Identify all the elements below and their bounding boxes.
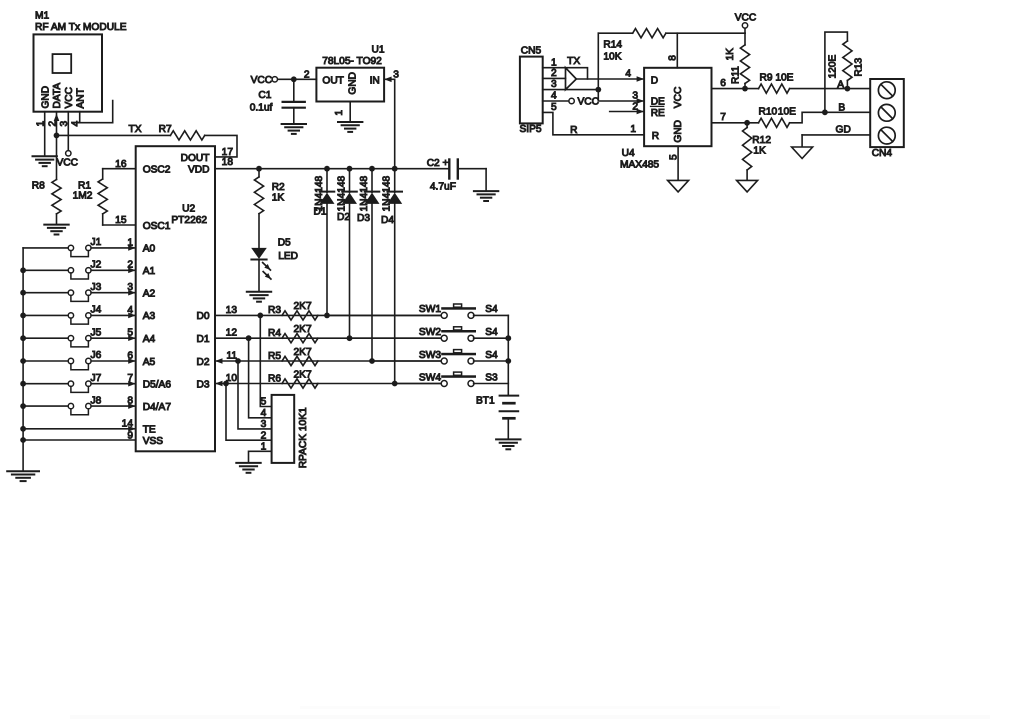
svg-text:VCC: VCC — [735, 13, 757, 24]
svg-text:78L05- TO92: 78L05- TO92 — [322, 56, 382, 67]
svg-text:R: R — [652, 131, 659, 142]
svg-text:J7: J7 — [91, 373, 102, 384]
svg-text:J3: J3 — [91, 282, 102, 293]
svg-text:S4: S4 — [485, 327, 498, 338]
svg-text:OUT: OUT — [322, 75, 344, 86]
svg-text:IN: IN — [370, 75, 380, 86]
svg-text:J1: J1 — [91, 237, 102, 248]
svg-text:S4: S4 — [485, 350, 498, 361]
svg-text:2K7: 2K7 — [294, 301, 312, 312]
svg-text:S4: S4 — [485, 304, 498, 315]
svg-text:SW1: SW1 — [419, 304, 441, 315]
svg-text:R14: R14 — [603, 40, 622, 51]
svg-text:GND: GND — [347, 72, 358, 95]
svg-text:J5: J5 — [91, 327, 102, 338]
svg-text:18: 18 — [222, 157, 234, 168]
svg-text:TX: TX — [567, 56, 580, 67]
svg-text:RPACK 10K1: RPACK 10K1 — [298, 407, 309, 468]
svg-text:10K: 10K — [603, 51, 621, 62]
svg-text:1N4148: 1N4148 — [382, 175, 393, 211]
svg-text:S3: S3 — [485, 372, 498, 383]
svg-text:10E: 10E — [778, 107, 796, 118]
svg-text:4.7uF: 4.7uF — [430, 181, 456, 192]
svg-text:1M2: 1M2 — [73, 190, 93, 201]
svg-text:B: B — [838, 102, 845, 113]
svg-text:0.1uf: 0.1uf — [250, 102, 273, 113]
svg-text:4: 4 — [625, 69, 631, 80]
svg-text:M1: M1 — [35, 11, 49, 22]
svg-text:SW2: SW2 — [419, 327, 441, 338]
svg-text:5: 5 — [668, 154, 679, 160]
svg-text:R5: R5 — [268, 351, 281, 362]
svg-text:A1: A1 — [143, 266, 156, 277]
svg-text:CN5: CN5 — [521, 45, 542, 56]
svg-text:1: 1 — [630, 124, 636, 135]
svg-text:VCC: VCC — [64, 87, 75, 109]
svg-text:J6: J6 — [91, 350, 102, 361]
svg-text:A0: A0 — [143, 244, 156, 255]
svg-text:7: 7 — [720, 112, 726, 123]
svg-text:1N4148: 1N4148 — [336, 175, 347, 211]
svg-text:TE: TE — [143, 425, 156, 436]
svg-text:A2: A2 — [143, 289, 156, 300]
svg-text:C2 +: C2 + — [427, 158, 449, 169]
svg-text:A3: A3 — [143, 311, 156, 322]
svg-text:DATA: DATA — [52, 83, 63, 109]
svg-text:OSC2: OSC2 — [143, 165, 171, 176]
svg-text:D2: D2 — [196, 357, 209, 368]
svg-text:CN4: CN4 — [872, 148, 893, 159]
svg-text:12: 12 — [226, 328, 238, 339]
svg-text:U4: U4 — [622, 148, 635, 159]
svg-text:VSS: VSS — [143, 436, 164, 447]
svg-text:8: 8 — [668, 55, 679, 61]
svg-text:J2: J2 — [91, 260, 102, 271]
svg-text:GD: GD — [836, 125, 851, 136]
svg-text:ANT: ANT — [75, 88, 86, 108]
svg-text:2: 2 — [632, 101, 638, 112]
svg-text:1K: 1K — [753, 145, 766, 156]
svg-text:D5/A6: D5/A6 — [143, 380, 172, 391]
svg-text:R11: R11 — [730, 66, 741, 84]
svg-text:GND: GND — [40, 86, 51, 109]
svg-text:D3: D3 — [357, 213, 370, 224]
svg-text:3: 3 — [551, 79, 557, 90]
svg-text:RE: RE — [651, 108, 665, 119]
svg-text:2: 2 — [551, 68, 557, 79]
svg-text:A: A — [837, 79, 844, 90]
svg-text:2K7: 2K7 — [294, 347, 312, 358]
svg-text:U1: U1 — [372, 45, 385, 56]
svg-text:R7: R7 — [159, 124, 172, 135]
svg-text:120E: 120E — [828, 55, 839, 79]
svg-text:R9 10E: R9 10E — [760, 73, 794, 84]
svg-text:5: 5 — [551, 102, 557, 113]
svg-text:D4/A7: D4/A7 — [143, 402, 172, 413]
svg-text:D2: D2 — [337, 212, 350, 223]
svg-text:3: 3 — [632, 91, 638, 102]
svg-text:D5: D5 — [278, 238, 291, 249]
svg-text:R10: R10 — [759, 107, 778, 118]
svg-text:1K: 1K — [725, 48, 736, 61]
svg-text:D1: D1 — [196, 334, 209, 345]
svg-text:PT2262: PT2262 — [171, 215, 207, 226]
svg-text:VCC: VCC — [251, 75, 273, 86]
svg-text:R8: R8 — [32, 181, 45, 192]
svg-text:TX: TX — [129, 124, 142, 135]
svg-text:MAX485: MAX485 — [620, 159, 659, 170]
svg-text:BT1: BT1 — [476, 396, 495, 407]
svg-text:13: 13 — [226, 305, 238, 316]
svg-text:D0: D0 — [196, 311, 209, 322]
svg-text:R13: R13 — [853, 57, 864, 76]
svg-text:DOUT: DOUT — [181, 153, 210, 164]
svg-text:R: R — [570, 125, 577, 136]
svg-text:D3: D3 — [196, 379, 209, 390]
svg-text:D1: D1 — [314, 206, 327, 217]
svg-text:RF AM Tx MODULE: RF AM Tx MODULE — [35, 22, 127, 33]
svg-text:VCC: VCC — [57, 158, 79, 169]
svg-text:VCC: VCC — [578, 96, 600, 107]
svg-text:4: 4 — [551, 91, 557, 102]
svg-text:2K7: 2K7 — [294, 324, 312, 335]
svg-text:J4: J4 — [91, 305, 102, 316]
svg-text:A4: A4 — [143, 334, 156, 345]
svg-text:U2: U2 — [182, 203, 195, 214]
svg-text:R3: R3 — [268, 305, 281, 316]
svg-text:D: D — [651, 75, 658, 86]
svg-text:1K: 1K — [272, 192, 285, 203]
svg-text:VDD: VDD — [188, 165, 210, 176]
svg-text:R6: R6 — [268, 373, 281, 384]
svg-text:J8: J8 — [91, 395, 102, 406]
svg-text:2: 2 — [304, 69, 310, 80]
svg-text:SW3: SW3 — [419, 350, 441, 361]
svg-text:C1: C1 — [258, 90, 271, 101]
svg-text:R4: R4 — [268, 328, 281, 339]
svg-text:OSC1: OSC1 — [143, 221, 171, 232]
svg-text:D4: D4 — [381, 215, 394, 226]
svg-text:SW4: SW4 — [419, 372, 441, 383]
svg-text:SIP5: SIP5 — [520, 124, 542, 135]
svg-text:LED: LED — [278, 251, 298, 262]
svg-text:VCC: VCC — [673, 87, 684, 109]
svg-text:2K7: 2K7 — [294, 369, 312, 380]
svg-text:6: 6 — [720, 78, 726, 89]
svg-text:GND: GND — [673, 120, 684, 143]
svg-text:1: 1 — [334, 110, 345, 116]
svg-text:1N4148: 1N4148 — [359, 175, 370, 211]
svg-text:1: 1 — [551, 57, 557, 68]
svg-text:A5: A5 — [143, 357, 156, 368]
